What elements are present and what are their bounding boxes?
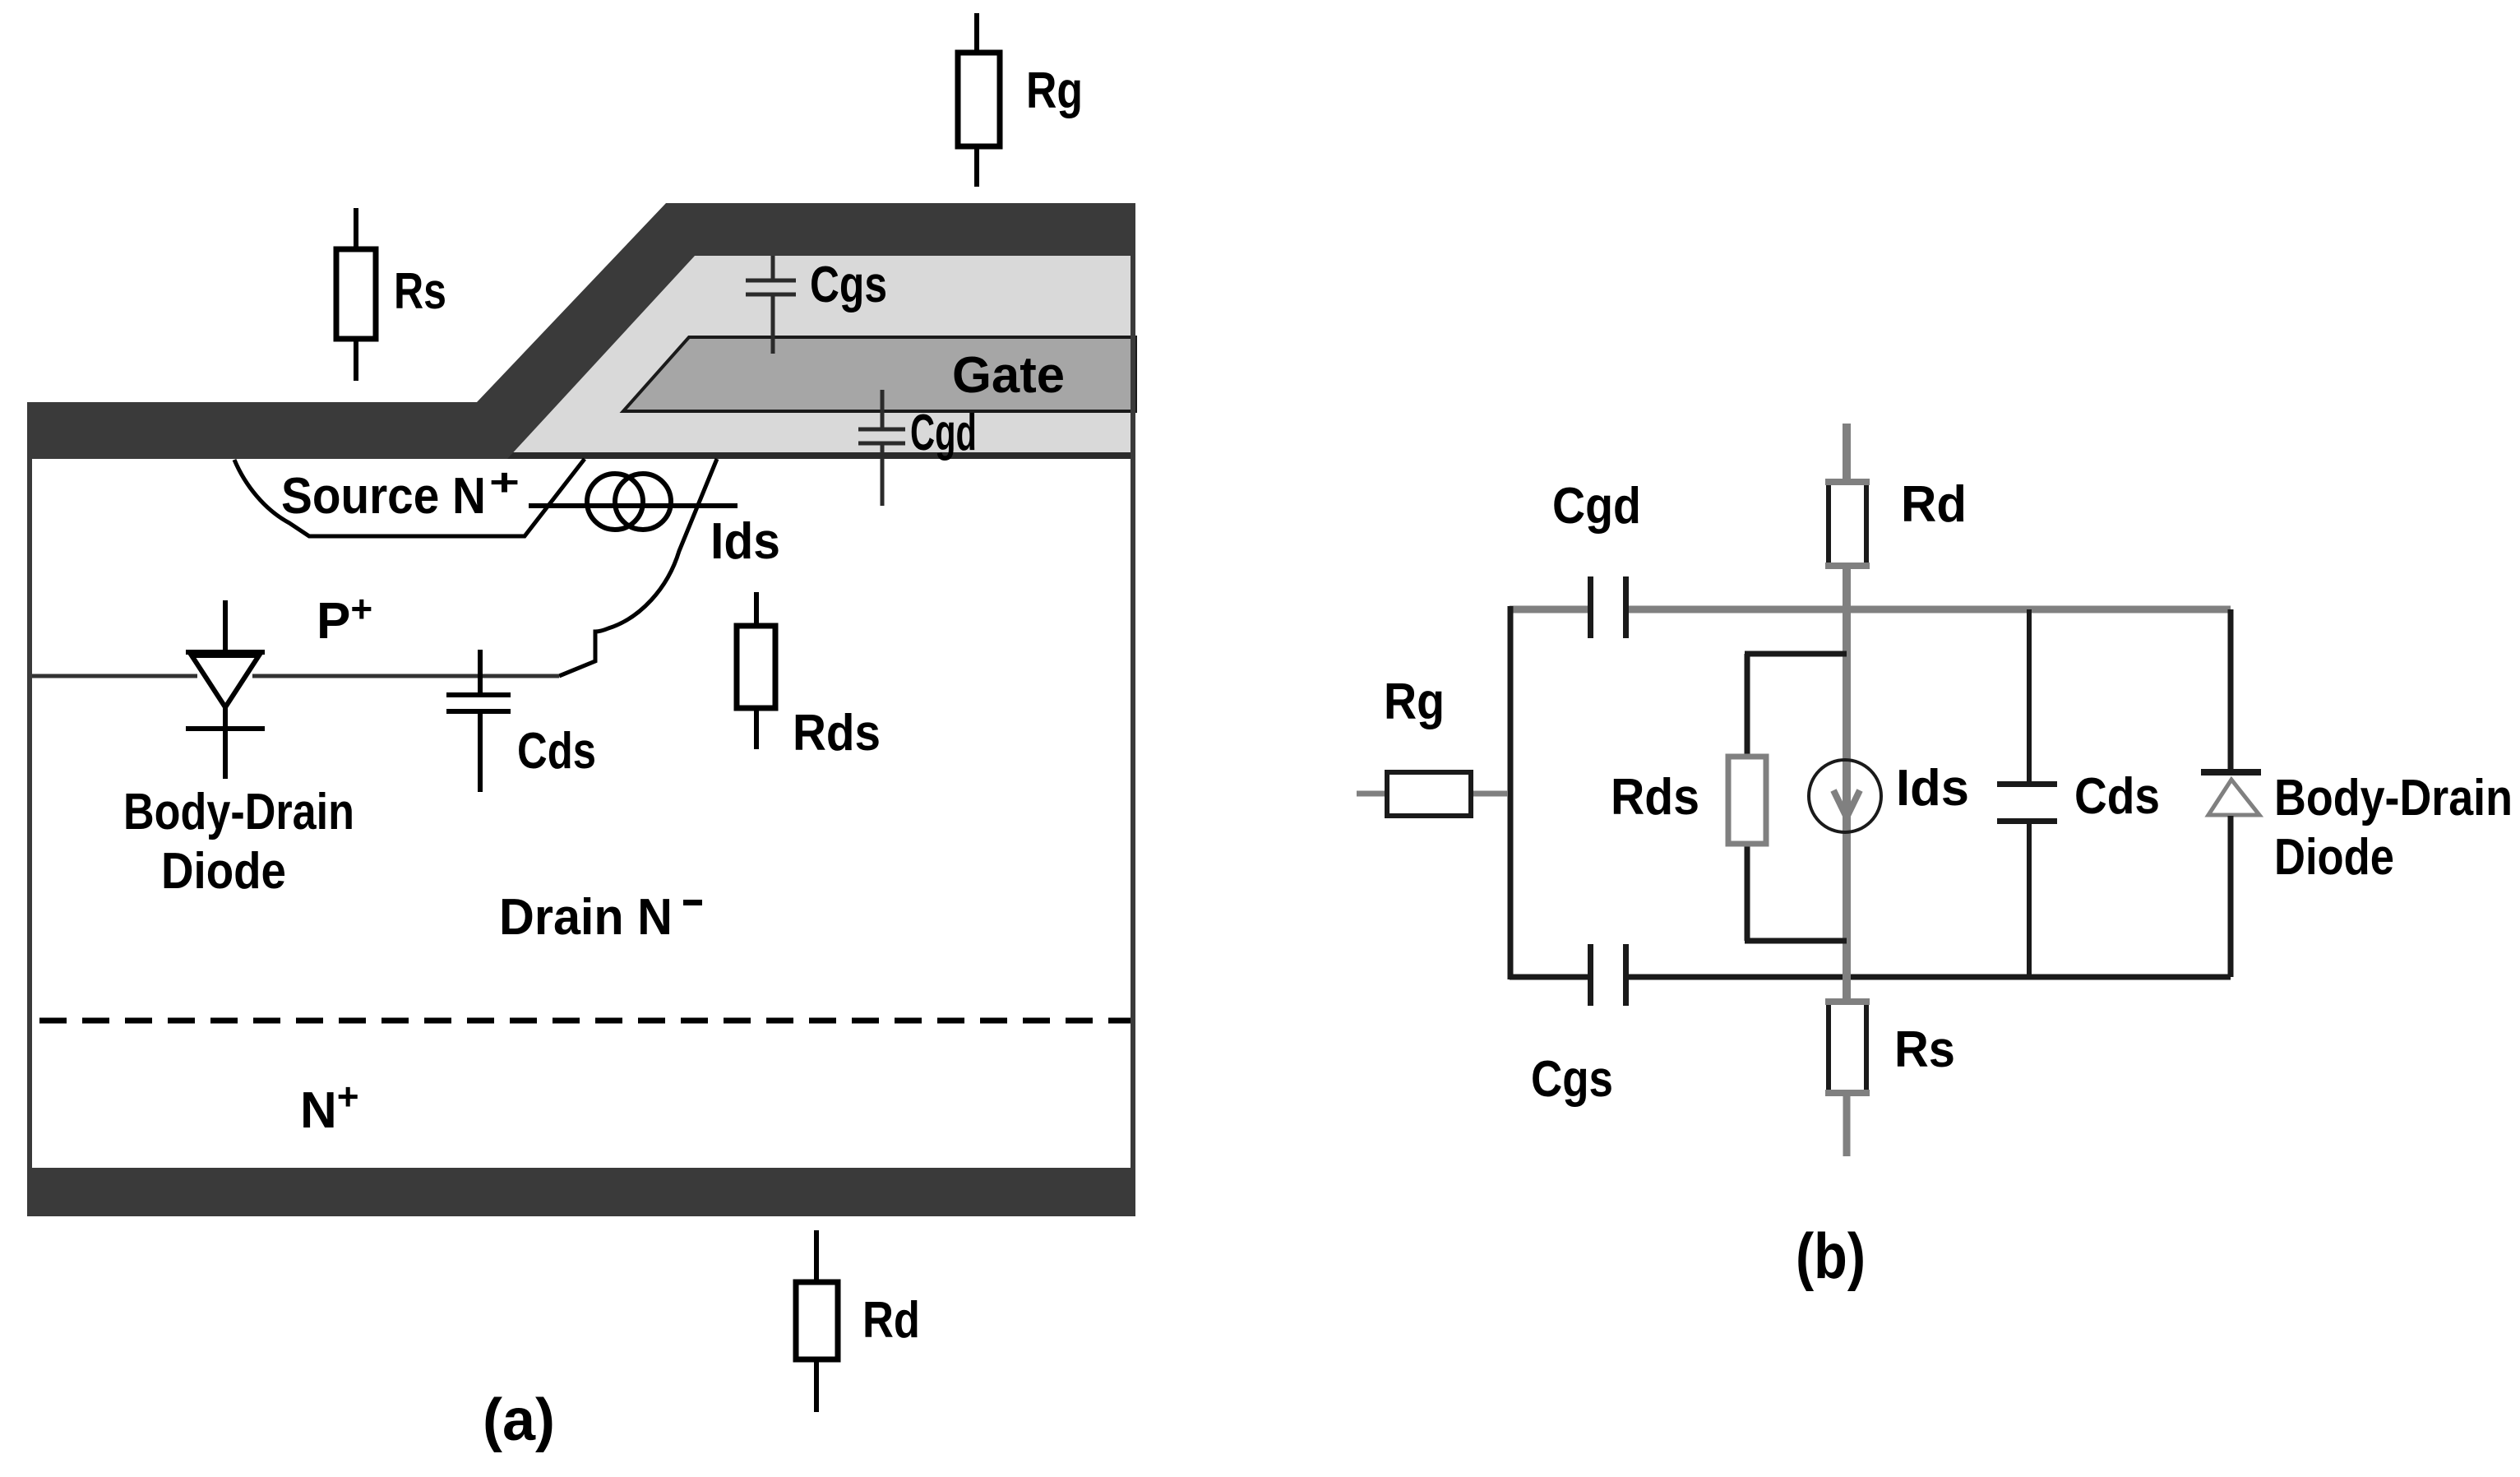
resistor Rd: [796, 1230, 838, 1412]
svg-text:Rs: Rs: [1894, 1021, 1955, 1078]
right border: [1131, 203, 1135, 1170]
svg-text:Rg: Rg: [1384, 674, 1445, 730]
svg-text:Ids: Ids: [710, 513, 780, 570]
body-drain diode (b): [2201, 609, 2261, 977]
svg-text:Drain N: Drain N: [499, 889, 673, 946]
left border: [27, 402, 32, 1170]
svg-text:Body-Drain: Body-Drain: [2274, 770, 2513, 826]
svg-text:Rs: Rs: [394, 263, 446, 320]
svg-text:(a): (a): [483, 1387, 555, 1453]
capacitor Cgd (b) plates: [1588, 576, 1593, 638]
svg-text:Diode: Diode: [161, 843, 286, 900]
svg-text:(b): (b): [1796, 1220, 1866, 1292]
svg-text:Cgs: Cgs: [1531, 1051, 1613, 1108]
wire and resistor Rs (b): [1825, 1001, 1870, 1156]
left edge wire (black): [1508, 606, 1514, 979]
wire from diode to Cds node: [252, 674, 559, 678]
svg-text:Ids: Ids: [1896, 760, 1969, 817]
svg-text:Source N: Source N: [281, 468, 486, 525]
source N+ region boundary: [234, 459, 585, 536]
svg-text:Rd: Rd: [862, 1292, 920, 1349]
capacitor Cgs (a): [746, 256, 796, 354]
wire from left border to diode: [32, 674, 197, 678]
svg-text:Rd: Rd: [1901, 476, 1967, 533]
capacitor Cgd (a): [858, 390, 905, 506]
wire drain (top): [1843, 424, 1851, 609]
svg-text:Cgd: Cgd: [1552, 478, 1641, 535]
resistor Rds (a): [737, 592, 775, 749]
wire through current source: [529, 503, 738, 508]
capacitor Cds (a): [446, 650, 511, 792]
dashed epi/substrate boundary: [39, 1018, 1131, 1024]
resistor Rg: [958, 13, 1000, 187]
svg-text:Cds: Cds: [517, 723, 596, 780]
silicon surface line: [493, 452, 1135, 459]
resistor Rg (b): [1357, 772, 1508, 816]
drain metal strip (bottom): [27, 1168, 1135, 1216]
svg-text:Rds: Rds: [1611, 769, 1699, 826]
svg-text:+: +: [489, 461, 520, 503]
bottom edge of node box (black) with Cgs gap: [1510, 975, 1588, 980]
svg-text:Rds: Rds: [793, 705, 881, 762]
svg-text:Cds: Cds: [2074, 768, 2160, 825]
gate polysilicon region: [623, 337, 1135, 411]
current source Ids (b): [1809, 760, 1881, 832]
svg-text:Cgs: Cgs: [810, 257, 887, 313]
center wire (gray) through box: [1843, 609, 1851, 1001]
capacitor Cgs (b) plates: [1588, 944, 1593, 1006]
source metal (dark band): [27, 203, 1135, 459]
current source Ids (a): [587, 474, 671, 530]
svg-text:Diode: Diode: [2274, 829, 2394, 886]
svg-text:Body-Drain: Body-Drain: [123, 784, 354, 840]
svg-text:Cgd: Cgd: [910, 405, 977, 461]
oxide layer (light gray): [460, 256, 1135, 452]
svg-text:Gate: Gate: [952, 347, 1065, 404]
resistor Rd (b): [1825, 481, 1870, 567]
P+ body region boundary: [559, 459, 717, 676]
resistor Rs: [336, 208, 376, 381]
resistor Rds (b): [1728, 757, 1766, 844]
Rds loop (black): [1745, 654, 1847, 941]
capacitor Cds (b): [1997, 609, 2057, 977]
top edge of node box (gray) with Cgd gap: [1510, 606, 1588, 613]
body-drain diode (a): [186, 600, 265, 779]
svg-text:Rg: Rg: [1026, 63, 1083, 119]
